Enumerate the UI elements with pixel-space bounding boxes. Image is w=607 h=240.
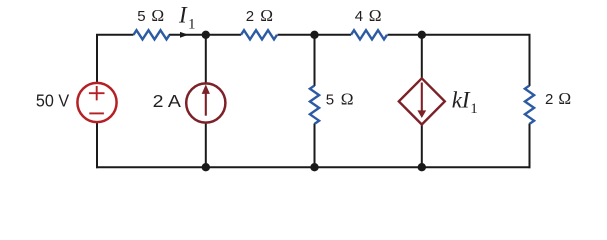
svg-text:Ω: Ω (341, 90, 354, 109)
svg-text:Ω: Ω (260, 6, 273, 25)
svg-text:4: 4 (355, 8, 363, 25)
wire top rail between 5ohm and 2ohm (169, 34, 241, 36)
wire top rail between 2ohm and 4ohm (278, 34, 352, 36)
wire branch 2A upper (205, 35, 207, 83)
wire top rail right segment (388, 34, 531, 86)
svg-text:1: 1 (470, 101, 478, 117)
wire left branch lower (96, 123, 98, 168)
resistor R 2ohm vertical right (525, 86, 534, 124)
node dot top at 5ohm branch (310, 31, 318, 39)
svg-text:5: 5 (137, 8, 145, 25)
svg-text:2: 2 (246, 8, 254, 25)
node dot bottom at 5ohm branch (310, 163, 318, 171)
kI1 arrow shaft (421, 83, 423, 112)
wire right branch lower (529, 124, 531, 169)
wire branch 5ohm lower (314, 124, 316, 169)
minus sign (89, 112, 104, 114)
resistor R 2ohm top (241, 30, 277, 39)
node dot top at kI1 branch (418, 31, 426, 39)
svg-text:Ω: Ω (151, 6, 164, 25)
2A arrow shaft (205, 94, 207, 116)
svg-text:50 V: 50 V (36, 91, 70, 111)
svg-text:Ω: Ω (558, 89, 571, 108)
svg-text:2 A: 2 A (153, 91, 182, 111)
wire top rail left segment (96, 34, 134, 82)
voltage source 50V circle (77, 83, 116, 122)
plus sign (89, 86, 105, 100)
svg-text:kI: kI (452, 87, 471, 112)
node dot top at 2A branch (202, 31, 210, 39)
2A arrow head (202, 84, 210, 94)
wire branch kI1 lower (421, 124, 423, 168)
wire branch 5ohm upper (314, 35, 316, 86)
dependent source kI1 diamond (399, 78, 445, 124)
svg-text:2: 2 (545, 91, 553, 108)
resistor R 5ohm vertical (310, 86, 319, 124)
kI1 arrow head (417, 110, 426, 118)
svg-text:5: 5 (326, 92, 334, 109)
node dot bottom at kI1 branch (418, 163, 426, 171)
svg-text:I: I (178, 3, 188, 28)
svg-text:Ω: Ω (369, 6, 382, 25)
wire branch 2A lower (205, 123, 207, 168)
current arrow I1 on wire (180, 32, 188, 38)
wire bottom rail (96, 166, 531, 168)
svg-text:1: 1 (188, 17, 196, 33)
node dot bottom at 2A branch (202, 163, 210, 171)
resistor R 4ohm top (351, 30, 387, 39)
wire branch kI1 upper (421, 35, 423, 79)
resistor R 5ohm top (134, 30, 170, 39)
current source 2A circle (186, 83, 225, 122)
